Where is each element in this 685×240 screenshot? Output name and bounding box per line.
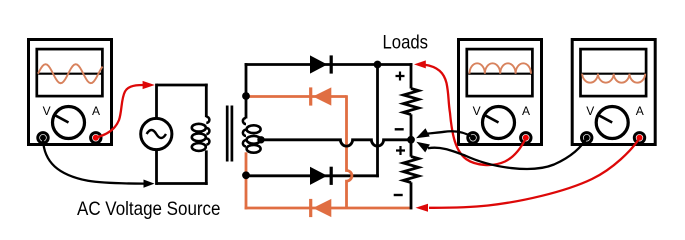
meter M3 negative rectified waveform <box>582 74 645 83</box>
meter M1 body <box>29 40 112 145</box>
M1 black test lead <box>43 140 144 184</box>
M1 black lead arrowhead <box>144 180 155 188</box>
diode D1 (black, top rail) <box>310 55 327 73</box>
meter M3 knob pointer <box>598 115 612 123</box>
svg-text:A: A <box>92 104 100 118</box>
AC source loop right wire lower <box>205 150 208 185</box>
node: load midpoint junction dot <box>407 136 415 144</box>
load wire vertical top <box>410 63 413 88</box>
meter M3 body <box>572 40 655 145</box>
meter M2 body <box>459 40 542 145</box>
meter M1 screen zero line <box>38 73 102 75</box>
meter M1 knob <box>53 107 85 139</box>
AC source loop left wire upper <box>155 84 158 119</box>
wire: black vertical from node A down <box>376 65 379 178</box>
svg-text:AC Voltage Source: AC Voltage Source <box>77 198 221 220</box>
resistor R1 (top load) <box>403 89 418 115</box>
node: secondary bottom junction dot <box>242 171 250 179</box>
center tap wire with two hops <box>260 140 411 146</box>
R2 minus sign <box>394 194 403 196</box>
meter M3 screen <box>581 49 647 96</box>
M3 red lead arrowhead <box>416 204 429 212</box>
AC source loop bottom wire <box>157 182 208 185</box>
top rail wire <box>245 63 413 66</box>
meter M2 screen <box>467 49 533 96</box>
svg-text:V: V <box>586 104 594 118</box>
meter M3 knob <box>596 107 628 139</box>
AC source loop top wire <box>157 84 208 87</box>
AC voltage source circle <box>141 118 172 149</box>
svg-text:Loads: Loads <box>383 32 429 54</box>
meter M1 red terminal <box>91 133 101 143</box>
node: secondary top junction dot <box>242 92 250 100</box>
AC source loop left wire lower <box>155 150 158 185</box>
diode D4 (orange, pointing left, bottom) <box>309 199 312 217</box>
meter M1 black terminal <box>38 133 48 143</box>
diode D2 (black, lower rail) <box>310 167 327 185</box>
meter M2 knob <box>483 107 515 139</box>
load wire vertical middle <box>410 114 413 156</box>
wire: lower black rail <box>246 174 379 177</box>
AC source loop right wire upper <box>205 84 208 118</box>
svg-text:A: A <box>636 104 644 118</box>
svg-text:V: V <box>473 104 481 118</box>
svg-text:V: V <box>43 104 51 118</box>
meter M2 red terminal <box>521 133 531 143</box>
M3 black lead arrowhead <box>416 142 430 153</box>
meter M3 screen zero line <box>582 73 646 75</box>
meter M1 knob pointer <box>54 115 68 123</box>
R1 plus sign <box>396 72 405 81</box>
secondary top lead wire <box>245 63 248 118</box>
resistor R2 (bottom load) <box>403 157 418 183</box>
node A: diode output junction dot <box>374 61 382 69</box>
transformer secondary coil <box>247 125 261 133</box>
M2 black test lead <box>428 131 474 137</box>
meter M1 sine waveform <box>38 64 103 83</box>
M2 black lead arrowhead <box>416 128 430 138</box>
meter M3 black terminal <box>582 133 592 143</box>
transformer core <box>226 106 229 162</box>
meter M2 full-wave rectified waveform <box>470 63 531 73</box>
orange vertical wire with hop over lower black rail <box>347 95 352 208</box>
M1 red test lead <box>96 85 143 138</box>
load wire vertical bottom <box>410 182 413 209</box>
orange top wire <box>246 95 347 98</box>
M2 red lead arrowhead <box>414 60 426 68</box>
M3 black test lead <box>428 137 587 169</box>
meter M1 screen <box>37 49 103 96</box>
AC voltage source sine symbol <box>147 130 166 138</box>
meter M2 black terminal <box>468 133 478 143</box>
diode D3 (orange, pointing left) <box>309 87 312 105</box>
R2 plus sign <box>396 146 405 155</box>
meter M2 screen zero line <box>468 73 532 75</box>
R1 minus sign <box>395 128 404 130</box>
M1 red lead arrowhead <box>143 81 155 89</box>
M3 red test lead <box>429 138 640 208</box>
svg-text:A: A <box>522 104 530 118</box>
orange bottom wire <box>245 207 413 210</box>
node: center tap junction dot <box>257 136 264 143</box>
meter M3 red terminal <box>634 133 644 143</box>
secondary bottom lead wire (orange) <box>245 152 248 209</box>
meter M2 knob pointer <box>484 115 498 123</box>
transformer primary coil <box>192 124 206 132</box>
M2 red test lead <box>424 65 526 165</box>
